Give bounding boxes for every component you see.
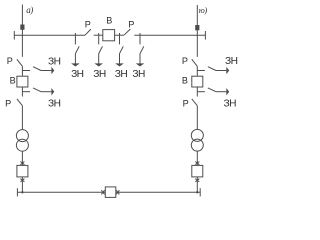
svg-text:В: В [10, 76, 16, 86]
plug contact left of LV section breaker [101, 190, 104, 194]
withdrawable breaker (bay 1 LV) [17, 165, 28, 177]
transformer T1 [16, 130, 28, 142]
earthing switch ZN2 (breaker left side) [94, 33, 103, 67]
earthing switch ZN3 (breaker right side) [115, 33, 124, 67]
svg-text:ЗН: ЗН [224, 99, 237, 110]
svg-text:ЗН: ЗН [115, 69, 128, 80]
earthing branch upper (bay 2) [197, 67, 229, 75]
wire [21, 66, 23, 76]
earthing branch upper (bay 1) [22, 67, 54, 75]
circuit breaker B (bay 2) [192, 76, 203, 87]
disconnector P upper (bay 1) blade [17, 59, 23, 66]
plug contact below LV breaker (bay 2) [195, 179, 199, 182]
svg-text:ЗН: ЗН [48, 99, 61, 110]
wire [21, 87, 23, 97]
wire [196, 87, 198, 97]
svg-text:ЗН: ЗН [225, 56, 238, 67]
wire [196, 177, 198, 192]
svg-text:В: В [182, 76, 188, 86]
disconnector P upper (bay 2) blade [192, 59, 198, 66]
LV busbar left [17, 191, 105, 193]
plug contact above LV breaker (bay 1) [20, 162, 24, 165]
wire incoming line W2 upper [196, 5, 198, 57]
wire [21, 177, 23, 192]
svg-text:В: В [106, 16, 112, 26]
LV busbar right end tick [199, 188, 201, 196]
svg-text:Р: Р [5, 98, 11, 108]
earthing switch ZN4 (bus section 2) [136, 33, 145, 67]
wire [196, 66, 198, 76]
svg-text:Р: Р [128, 20, 134, 30]
wire [196, 151, 198, 165]
disconnector P (section, right) blade [124, 29, 130, 35]
busbar section 1 end tick [13, 31, 15, 40]
transformer T2 [191, 129, 203, 141]
svg-text:ЗН: ЗН [48, 57, 61, 68]
wire [21, 151, 23, 165]
earthing switch ZN1 (bus section 1) [71, 33, 80, 67]
LV section breaker (withdrawable) [105, 187, 116, 198]
disconnector P lower (bay 2) blade [192, 99, 198, 106]
plug contact below LV breaker (bay 1) [20, 179, 24, 182]
wire [196, 106, 198, 130]
wire stub right of section breaker [115, 34, 124, 36]
svg-text:Р: Р [182, 56, 188, 66]
disconnector P lower (bay 1) blade [17, 99, 23, 106]
busbar section 2 end tick [204, 31, 206, 40]
svg-text:Р: Р [7, 56, 13, 66]
earthing branch lower (bay 1) [22, 88, 54, 96]
svg-text:ЗН: ЗН [132, 69, 145, 80]
wire stub left of section breaker [94, 34, 103, 36]
svg-text:Р: Р [85, 20, 91, 30]
svg-text:ю): ю) [199, 5, 208, 15]
junction dot bay1/LV bus [21, 191, 23, 193]
wire [21, 106, 23, 130]
LV busbar left end tick [16, 188, 18, 196]
cable termination box on W2 [196, 26, 199, 30]
disconnector P (section, left) blade [85, 29, 91, 35]
junction dot bay2/LV bus [196, 191, 198, 193]
LV busbar right [116, 191, 200, 193]
plug contact right of LV section breaker [116, 190, 119, 194]
circuit breaker B (section) [103, 30, 115, 41]
cable termination box on W1 [21, 25, 24, 29]
wire incoming line W1 upper [21, 5, 23, 57]
svg-text:ЗН: ЗН [93, 69, 106, 80]
svg-text:а): а) [26, 5, 33, 15]
withdrawable breaker (bay 2 LV) [192, 165, 203, 177]
busbar section 1 [14, 34, 85, 36]
busbar section 2 [134, 34, 205, 36]
svg-text:ЗН: ЗН [71, 69, 84, 80]
earthing branch lower (bay 2) [197, 88, 229, 96]
svg-text:Р: Р [183, 98, 189, 108]
circuit breaker B (bay 1) [17, 76, 28, 87]
plug contact above LV breaker (bay 2) [195, 162, 199, 165]
